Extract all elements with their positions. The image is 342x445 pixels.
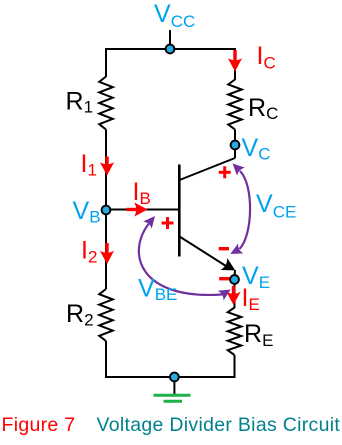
wire RC to Vc node	[234, 130, 236, 146]
wire right rail upper	[234, 48, 236, 80]
arrow I1 current	[100, 157, 114, 176]
node VCC	[166, 45, 175, 54]
svg-text:RE: RE	[244, 320, 273, 350]
wire Ve node to RE	[234, 280, 236, 309]
wire base from VB node	[106, 209, 178, 211]
wire RE to bottom rail	[234, 355, 236, 378]
svg-text:VC: VC	[242, 134, 271, 164]
wire ground stub	[173, 377, 175, 395]
resistor R1	[99, 77, 113, 130]
node VC	[231, 141, 240, 150]
svg-text:IB: IB	[133, 178, 151, 208]
arrow IE current	[226, 286, 240, 305]
plus sign base	[162, 217, 174, 229]
transistor Q1 base bar	[178, 165, 181, 257]
svg-text:VCE: VCE	[256, 190, 296, 222]
svg-text:RC: RC	[248, 94, 278, 123]
svg-text:R2: R2	[66, 300, 94, 330]
svg-text:I2: I2	[81, 237, 97, 267]
minus sign emitter VBE	[219, 277, 229, 280]
transistor Q1 emitter lead with arrow	[180, 237, 239, 278]
resistor RC	[228, 80, 242, 130]
wire top rail	[106, 48, 235, 50]
svg-text:I1: I1	[81, 150, 97, 180]
svg-text:VB: VB	[73, 197, 101, 227]
arc VBE voltage arrow	[139, 212, 234, 300]
arc VCE voltage arrow	[228, 159, 250, 258]
svg-text:Voltage Divider Bias Circuit: Voltage Divider Bias Circuit	[97, 414, 341, 436]
wire left rail upper	[105, 48, 107, 77]
svg-text:Figure 7: Figure 7	[2, 414, 76, 436]
svg-text:R1: R1	[66, 88, 94, 117]
svg-text:VCC: VCC	[154, 0, 195, 31]
wire Vcc stub	[169, 30, 171, 49]
node VE	[230, 275, 239, 284]
resistor R2	[99, 289, 113, 341]
wire Vc node to collector	[234, 145, 236, 158]
svg-text:VBE: VBE	[138, 275, 177, 305]
node VB	[102, 206, 111, 215]
arrow IB current	[127, 202, 148, 216]
arrow IC current	[228, 50, 242, 72]
node ground junction	[170, 373, 179, 382]
plus sign collector	[219, 166, 231, 178]
wire left rail lower	[105, 341, 107, 378]
resistor RE	[228, 308, 242, 356]
ground	[154, 395, 191, 401]
wire bottom rail	[105, 376, 236, 378]
wire left rail middle	[105, 130, 107, 290]
transistor Q1 collector lead	[180, 158, 236, 180]
arrow I2 current	[100, 243, 114, 264]
svg-text:IC: IC	[257, 42, 276, 73]
minus sign emitter VCE	[219, 247, 229, 250]
